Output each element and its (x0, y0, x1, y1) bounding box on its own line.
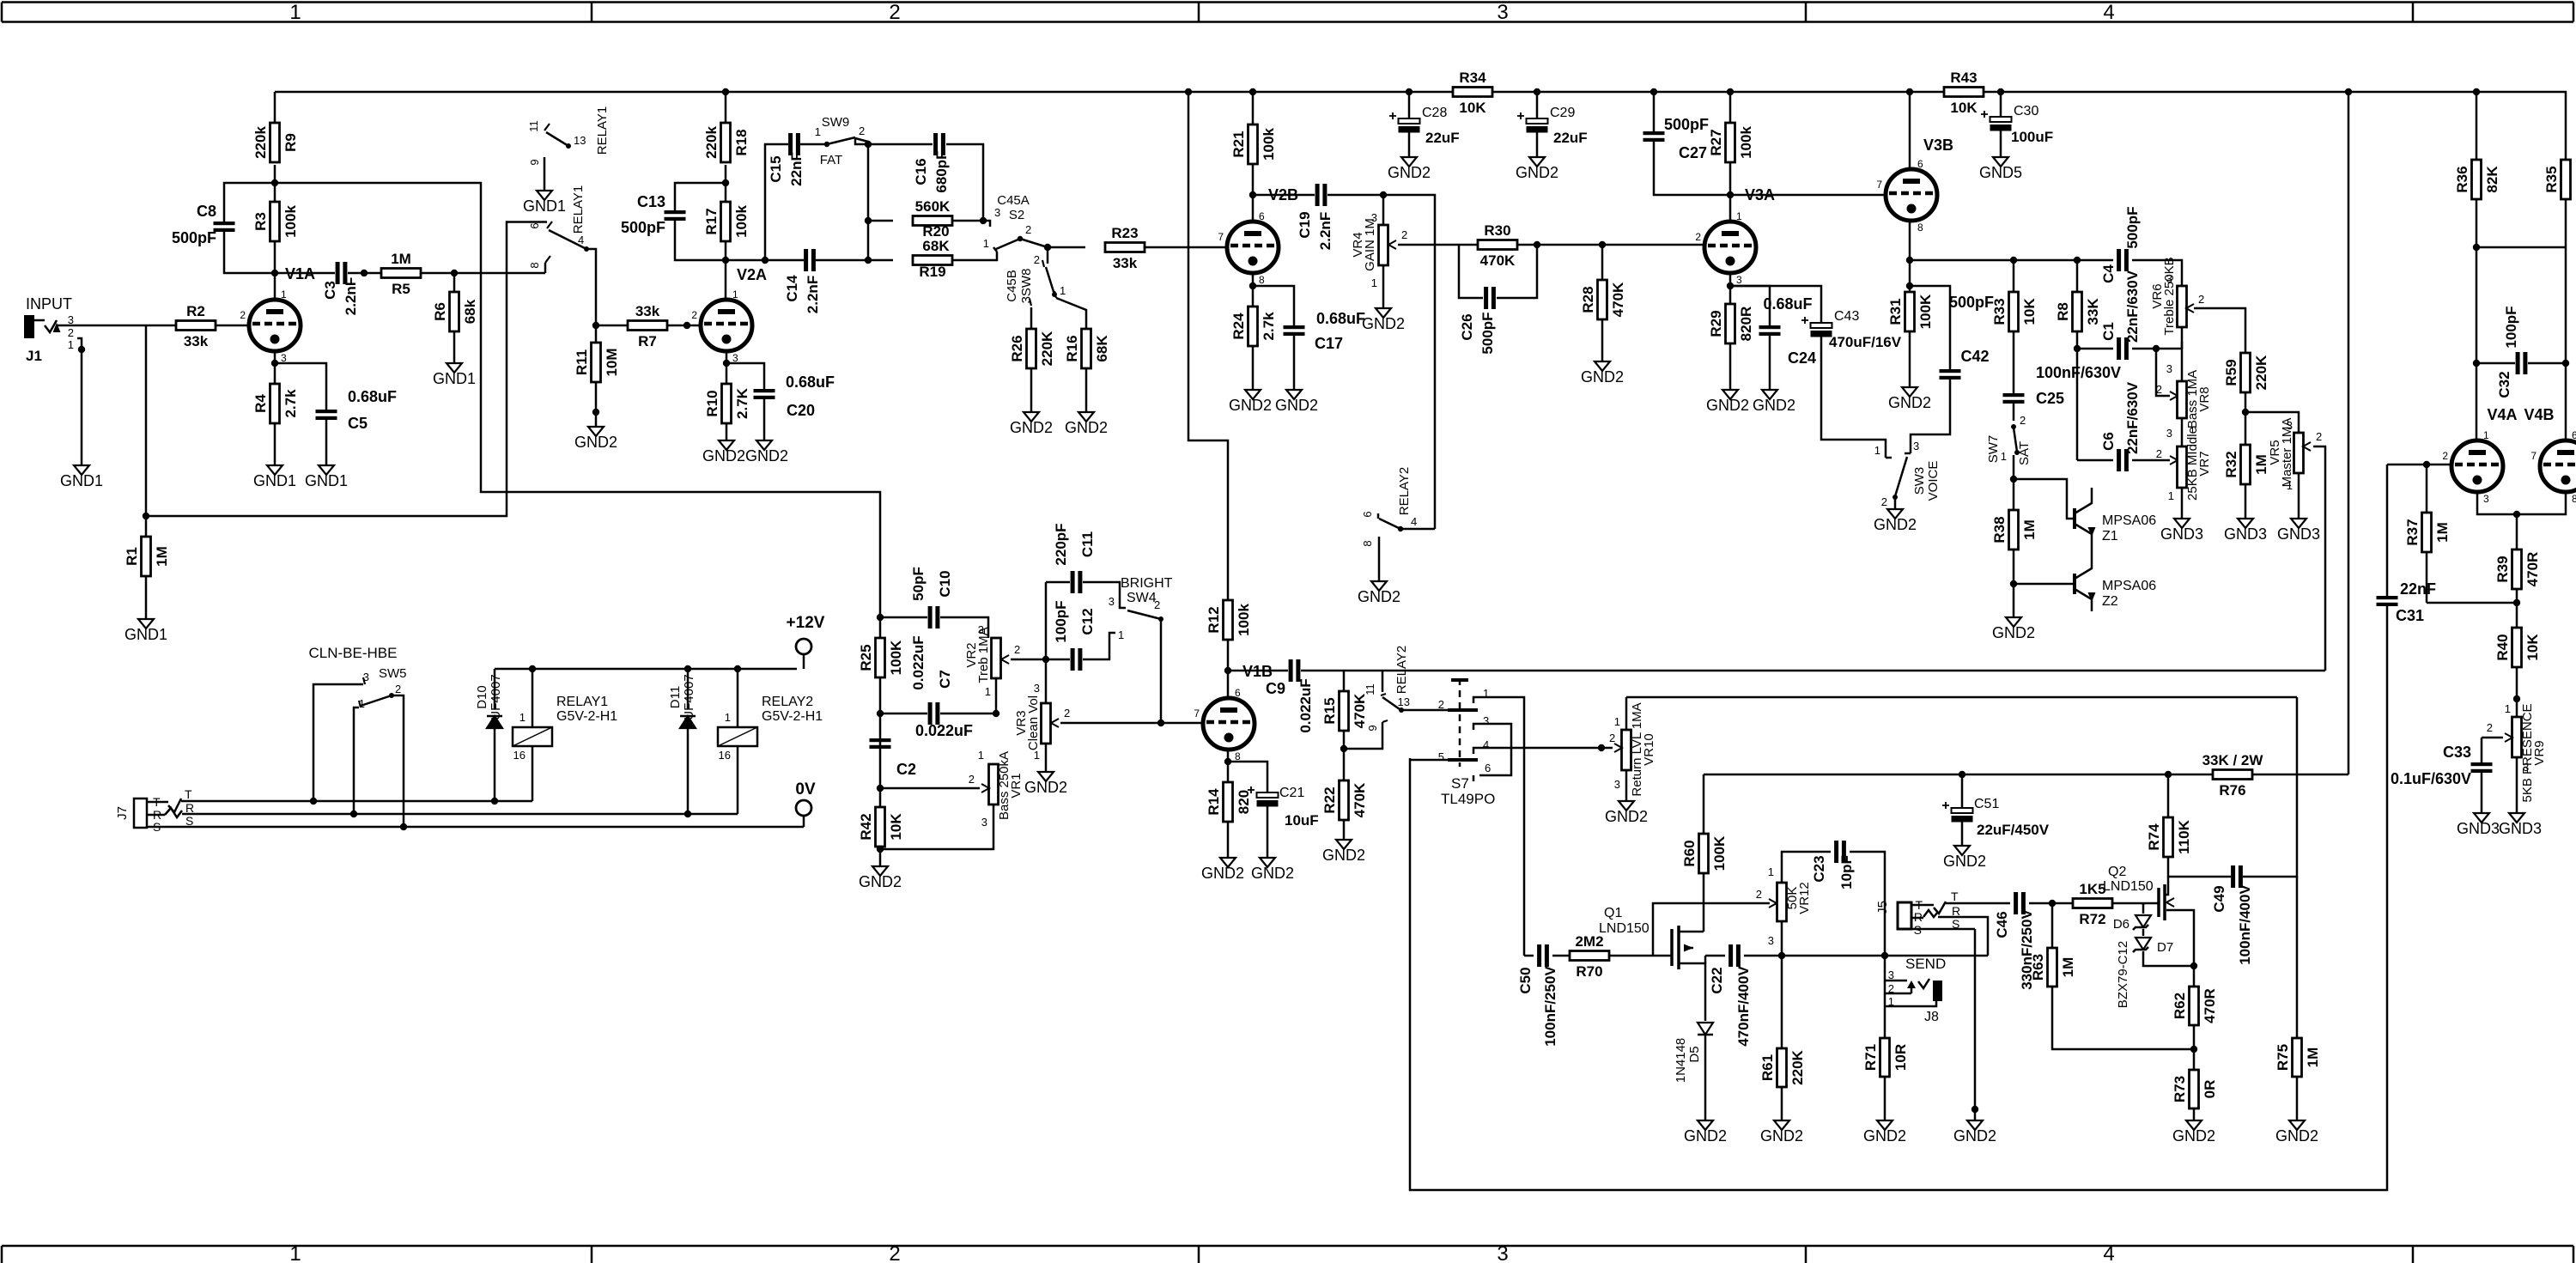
svg-text:3: 3 (1736, 274, 1742, 286)
svg-text:6: 6 (1361, 511, 1374, 517)
svg-text:3: 3 (68, 313, 74, 326)
svg-text:VR12: VR12 (1797, 882, 1812, 914)
svg-text:R74: R74 (2146, 823, 2162, 851)
svg-text:100k: 100k (283, 205, 299, 238)
svg-text:470K: 470K (1480, 252, 1516, 269)
svg-text:500pF: 500pF (1479, 312, 1496, 354)
svg-text:0V: 0V (795, 780, 816, 798)
svg-text:2: 2 (68, 326, 74, 339)
svg-text:C45B: C45B (1005, 270, 1019, 302)
svg-text:2: 2 (1881, 495, 1887, 508)
svg-text:2: 2 (2487, 721, 2493, 734)
svg-text:R36: R36 (2454, 166, 2470, 192)
svg-text:100pF: 100pF (1053, 600, 1069, 642)
svg-text:0.68uF: 0.68uF (786, 373, 835, 391)
svg-text:G5V-2-H1: G5V-2-H1 (556, 709, 617, 724)
svg-text:C15: C15 (768, 155, 784, 182)
svg-text:2: 2 (1014, 643, 1020, 656)
svg-text:6: 6 (528, 222, 541, 228)
svg-text:R38: R38 (1991, 516, 2008, 543)
svg-text:2.2nF: 2.2nF (805, 276, 821, 313)
svg-text:J7: J7 (115, 806, 130, 820)
svg-text:S7: S7 (1451, 775, 1469, 792)
svg-text:100nF/250V: 100nF/250V (1542, 966, 1558, 1047)
svg-text:220pF: 220pF (1053, 523, 1069, 565)
svg-text:8: 8 (1259, 274, 1265, 286)
svg-text:220k: 220k (703, 126, 720, 159)
svg-text:R61: R61 (1759, 1054, 1776, 1081)
svg-text:C14: C14 (784, 275, 800, 302)
svg-text:R12: R12 (1206, 606, 1222, 633)
svg-text:1: 1 (2287, 479, 2293, 492)
svg-text:470K: 470K (1352, 693, 1368, 728)
svg-text:RELAY2: RELAY2 (1394, 646, 1409, 694)
svg-text:R76: R76 (2219, 782, 2245, 798)
svg-text:R16: R16 (1064, 335, 1080, 361)
svg-text:1: 1 (1034, 749, 1040, 762)
svg-text:R31: R31 (1887, 298, 1904, 325)
svg-text:R19: R19 (919, 264, 945, 280)
svg-text:10K: 10K (888, 813, 904, 841)
svg-text:3: 3 (1109, 595, 1115, 608)
svg-text:V4B: V4B (2524, 406, 2554, 423)
svg-text:T: T (185, 787, 192, 801)
svg-text:GND2: GND2 (1706, 397, 1749, 414)
svg-text:S: S (185, 814, 193, 828)
svg-text:R17: R17 (703, 208, 720, 234)
svg-text:4: 4 (2103, 1, 2114, 24)
svg-text:C49: C49 (2211, 885, 2227, 912)
svg-text:33K / 2W: 33K / 2W (2202, 752, 2264, 768)
svg-text:1: 1 (978, 749, 984, 762)
svg-text:D10: D10 (475, 685, 489, 709)
svg-text:C45A: C45A (997, 193, 1030, 208)
svg-text:C28: C28 (1422, 106, 1447, 120)
svg-text:2.7k: 2.7k (1261, 312, 1277, 341)
svg-text:R23: R23 (1111, 225, 1138, 241)
svg-text:1M: 1M (2305, 1047, 2321, 1068)
svg-text:R14: R14 (1206, 788, 1222, 816)
svg-text:GND3: GND3 (2160, 525, 2203, 543)
svg-text:GND2: GND2 (1065, 419, 1108, 436)
svg-text:V1A: V1A (285, 265, 315, 282)
svg-text:R72: R72 (2079, 911, 2105, 927)
svg-text:1: 1 (519, 711, 526, 724)
svg-text:LND150: LND150 (1599, 921, 1649, 936)
svg-text:1M: 1M (391, 251, 411, 267)
svg-text:R6: R6 (432, 302, 448, 321)
svg-text:R43: R43 (1950, 70, 1977, 86)
svg-text:1: 1 (1736, 210, 1742, 222)
svg-text:3: 3 (1034, 682, 1040, 695)
svg-text:R26: R26 (1009, 335, 1025, 361)
svg-text:0.68uF: 0.68uF (1763, 295, 1812, 313)
svg-text:R24: R24 (1230, 313, 1247, 340)
svg-text:0.68uF: 0.68uF (348, 388, 397, 405)
svg-text:7: 7 (1194, 707, 1200, 720)
svg-text:GND3: GND3 (2457, 820, 2500, 837)
svg-text:GND2: GND2 (1010, 419, 1053, 436)
svg-text:R59: R59 (2223, 359, 2239, 386)
svg-text:3: 3 (2483, 493, 2489, 505)
svg-text:3: 3 (1913, 440, 1919, 452)
svg-text:4: 4 (1411, 515, 1417, 528)
svg-text:1: 1 (289, 1242, 301, 1263)
svg-text:68K: 68K (1094, 335, 1110, 362)
svg-text:10pF: 10pF (1838, 855, 1855, 890)
svg-text:C8: C8 (197, 203, 216, 220)
svg-text:C20: C20 (787, 402, 815, 419)
svg-text:2.2nF: 2.2nF (343, 277, 359, 315)
svg-text:500pF: 500pF (172, 229, 216, 246)
svg-text:SW7: SW7 (1986, 435, 2001, 464)
svg-text:R37: R37 (2404, 519, 2421, 545)
svg-text:10R: 10R (1893, 1044, 1909, 1071)
svg-text:82K: 82K (2484, 166, 2500, 193)
svg-text:1: 1 (983, 237, 989, 250)
svg-text:10K: 10K (1950, 100, 1978, 116)
svg-text:R70: R70 (1576, 963, 1602, 980)
svg-text:2: 2 (2316, 430, 2322, 443)
svg-text:R11: R11 (574, 349, 590, 375)
svg-text:C25: C25 (2036, 390, 2064, 407)
svg-text:2: 2 (2156, 383, 2162, 396)
svg-text:VR7: VR7 (2197, 451, 2212, 476)
svg-text:VR1: VR1 (1009, 773, 1024, 798)
svg-text:1: 1 (1118, 628, 1124, 641)
svg-text:D7: D7 (2157, 940, 2173, 955)
svg-text:C24: C24 (1788, 349, 1816, 367)
svg-text:SW3: SW3 (1912, 467, 1927, 495)
svg-text:J8: J8 (1924, 1010, 1939, 1024)
svg-text:2: 2 (1025, 223, 1031, 236)
svg-text:C26: C26 (1459, 313, 1475, 340)
svg-text:100uF: 100uF (2011, 129, 2053, 145)
svg-text:C42: C42 (1960, 348, 1989, 365)
svg-text:3: 3 (1768, 934, 1774, 947)
svg-text:2: 2 (889, 1242, 900, 1263)
svg-text:500pF: 500pF (1949, 294, 1994, 311)
svg-text:7: 7 (1876, 179, 1882, 191)
svg-text:GND2: GND2 (1760, 1127, 1803, 1145)
svg-text:1: 1 (68, 338, 74, 351)
svg-text:22uF: 22uF (1425, 130, 1460, 146)
svg-text:100k: 100k (1236, 604, 1252, 636)
svg-text:0.022uF: 0.022uF (1297, 678, 1314, 732)
svg-text:33K: 33K (2085, 298, 2101, 325)
svg-text:R60: R60 (1681, 840, 1698, 866)
svg-text:10K: 10K (2021, 298, 2038, 325)
svg-text:SEND: SEND (1905, 956, 1946, 972)
svg-text:1: 1 (1874, 444, 1880, 457)
svg-text:R71: R71 (1862, 1044, 1879, 1071)
svg-text:100K: 100K (888, 640, 904, 675)
svg-text:GND2: GND2 (1229, 397, 1272, 414)
svg-text:1: 1 (1060, 284, 1066, 297)
svg-text:100k: 100k (1738, 126, 1754, 159)
svg-text:Treble 250KB: Treble 250KB (2162, 257, 2177, 335)
svg-text:6: 6 (1917, 158, 1923, 170)
svg-text:GND2: GND2 (1581, 368, 1624, 386)
svg-text:SW4: SW4 (1127, 591, 1157, 605)
svg-text:2.7k: 2.7k (283, 389, 299, 418)
svg-text:GND2: GND2 (1605, 808, 1648, 825)
svg-text:C32: C32 (2496, 371, 2512, 398)
svg-text:R7: R7 (638, 333, 657, 349)
svg-text:R34: R34 (1459, 70, 1486, 86)
svg-text:6: 6 (1235, 687, 1241, 699)
svg-text:C4: C4 (2100, 264, 2117, 283)
svg-text:220K: 220K (2253, 355, 2269, 390)
svg-text:6: 6 (1259, 210, 1265, 222)
svg-text:2: 2 (1401, 228, 1407, 241)
svg-text:RELAY1: RELAY1 (571, 185, 586, 234)
svg-text:RELAY2: RELAY2 (762, 695, 813, 709)
svg-text:C19: C19 (1297, 211, 1313, 238)
svg-text:220k: 220k (252, 126, 269, 159)
svg-text:R22: R22 (1321, 786, 1338, 813)
svg-text:5: 5 (1438, 750, 1444, 763)
svg-text:7: 7 (1218, 231, 1224, 243)
svg-text:1: 1 (2168, 489, 2174, 502)
svg-text:13: 13 (574, 134, 586, 147)
svg-text:GND2: GND2 (1516, 164, 1558, 181)
svg-text:Z2: Z2 (2102, 594, 2118, 609)
svg-text:3: 3 (2523, 761, 2529, 774)
svg-text:1: 1 (2001, 450, 2007, 463)
svg-text:INPUT: INPUT (26, 295, 72, 313)
svg-text:820R: 820R (1738, 307, 1754, 342)
svg-text:RELAY2: RELAY2 (1397, 467, 1412, 515)
svg-text:470nF/400V: 470nF/400V (1735, 966, 1752, 1047)
svg-text:D6: D6 (2113, 917, 2129, 932)
svg-text:2: 2 (2156, 447, 2162, 460)
svg-text:GND2: GND2 (1684, 1127, 1727, 1145)
svg-text:J5: J5 (1875, 901, 1890, 914)
svg-text:GND5: GND5 (1979, 164, 2022, 181)
svg-text:820: 820 (1236, 790, 1252, 814)
svg-text:GND2: GND2 (1753, 397, 1795, 414)
svg-text:470K: 470K (1352, 782, 1368, 817)
svg-text:1: 1 (985, 685, 991, 698)
svg-text:C13: C13 (637, 193, 665, 210)
svg-text:MPSA06: MPSA06 (2102, 579, 2156, 593)
svg-text:470K: 470K (1610, 282, 1626, 317)
svg-text:V2A: V2A (737, 266, 767, 283)
svg-text:2: 2 (1609, 732, 1615, 744)
svg-text:33k: 33k (1113, 255, 1138, 271)
svg-text:500pF: 500pF (621, 219, 665, 236)
svg-text:C17: C17 (1315, 335, 1343, 352)
svg-text:C29: C29 (1550, 106, 1575, 120)
svg-text:1: 1 (732, 288, 738, 301)
svg-text:GND3: GND3 (2224, 525, 2267, 543)
svg-text:22nF: 22nF (788, 152, 805, 186)
svg-text:GND2: GND2 (2275, 1127, 2318, 1145)
svg-text:1: 1 (281, 288, 287, 301)
svg-text:1N4148: 1N4148 (1674, 1038, 1688, 1084)
svg-text:C30: C30 (2014, 104, 2038, 118)
svg-text:Z1: Z1 (2102, 529, 2118, 543)
svg-text:22nF: 22nF (2400, 580, 2436, 598)
svg-text:GND2: GND2 (1251, 865, 1294, 882)
svg-text:2: 2 (240, 309, 246, 321)
svg-text:10M: 10M (604, 348, 620, 376)
svg-text:680pF: 680pF (933, 150, 950, 192)
svg-text:GND2: GND2 (1943, 853, 1986, 870)
svg-text:0.022uF: 0.022uF (915, 722, 973, 739)
svg-text:C21: C21 (1279, 786, 1304, 800)
svg-text:1K5: 1K5 (2079, 881, 2105, 897)
svg-text:0.022uF: 0.022uF (910, 635, 927, 689)
svg-text:RELAY1: RELAY1 (556, 695, 608, 709)
svg-text:GND1: GND1 (523, 197, 566, 215)
svg-text:50pF: 50pF (910, 567, 927, 601)
svg-text:1: 1 (1614, 715, 1620, 728)
svg-text:C51: C51 (1974, 797, 1999, 811)
svg-text:Master 1MA: Master 1MA (2280, 418, 2294, 488)
svg-text:2: 2 (969, 773, 975, 786)
svg-text:GND2: GND2 (1388, 164, 1431, 181)
svg-text:22uF: 22uF (1553, 130, 1588, 146)
svg-text:470R: 470R (2524, 552, 2541, 587)
svg-text:SW5: SW5 (379, 666, 407, 681)
svg-text:10K: 10K (1459, 100, 1486, 116)
svg-text:16: 16 (513, 749, 526, 762)
svg-text:C11: C11 (1079, 531, 1096, 557)
svg-text:GND2: GND2 (1863, 1127, 1906, 1145)
svg-text:GAIN 1M: GAIN 1M (1363, 218, 1377, 271)
svg-text:R30: R30 (1484, 222, 1510, 239)
svg-text:VR9: VR9 (2532, 740, 2547, 765)
svg-text:8: 8 (1917, 222, 1923, 234)
svg-text:C33: C33 (2443, 744, 2471, 761)
svg-text:R: R (185, 801, 194, 815)
svg-text:3SW8: 3SW8 (1019, 269, 1034, 304)
svg-text:C6: C6 (2100, 432, 2117, 451)
svg-text:GND3: GND3 (2499, 820, 2542, 837)
svg-text:+12V: +12V (787, 614, 825, 632)
svg-text:6: 6 (2572, 429, 2576, 441)
svg-text:S2: S2 (1009, 208, 1024, 222)
svg-text:C16: C16 (913, 158, 929, 185)
svg-text:22nF/630V: 22nF/630V (2124, 381, 2141, 454)
svg-text:9: 9 (1366, 725, 1379, 731)
svg-text:GND2: GND2 (1953, 1127, 1996, 1145)
svg-text:R35: R35 (2543, 166, 2560, 192)
svg-text:1: 1 (2483, 429, 2489, 441)
svg-text:1: 1 (2505, 702, 2511, 715)
svg-text:C43: C43 (1834, 309, 1859, 324)
svg-text:C1: C1 (2100, 322, 2117, 341)
svg-text:3: 3 (1483, 714, 1489, 727)
svg-text:3: 3 (2166, 362, 2172, 375)
svg-text:470uF/16V: 470uF/16V (1829, 334, 1902, 350)
svg-text:1M: 1M (2434, 522, 2451, 543)
svg-text:T: T (1951, 890, 1959, 903)
svg-text:GND2: GND2 (1358, 588, 1400, 605)
svg-text:4: 4 (578, 234, 584, 246)
svg-text:V4A: V4A (2487, 406, 2517, 423)
svg-text:LND150: LND150 (2103, 879, 2154, 894)
svg-text:R27: R27 (1708, 129, 1724, 155)
svg-text:0.68uF: 0.68uF (1316, 310, 1365, 327)
svg-text:22nF/630V: 22nF/630V (2124, 270, 2141, 343)
svg-text:1M: 1M (2021, 519, 2038, 540)
svg-text:GND2: GND2 (1362, 315, 1405, 332)
svg-text:GND2: GND2 (1322, 847, 1365, 864)
svg-text:R42: R42 (858, 813, 874, 840)
svg-text:2: 2 (395, 683, 401, 695)
svg-text:BRIGHT: BRIGHT (1121, 576, 1173, 591)
svg-text:R: R (1952, 904, 1960, 918)
svg-text:C5: C5 (348, 415, 368, 432)
svg-text:100k: 100k (733, 205, 750, 238)
svg-text:SAT: SAT (2017, 441, 2032, 465)
svg-text:10K: 10K (2524, 634, 2541, 661)
svg-text:C23: C23 (1811, 855, 1827, 882)
svg-text:2: 2 (2020, 414, 2026, 427)
svg-text:R10: R10 (704, 390, 720, 416)
svg-text:R2: R2 (186, 303, 205, 319)
svg-text:VR8: VR8 (2197, 386, 2212, 411)
svg-text:D5: D5 (1687, 1046, 1702, 1062)
svg-text:GND2: GND2 (1275, 397, 1318, 414)
svg-text:VOICE: VOICE (1926, 461, 1941, 501)
svg-text:GND2: GND2 (1201, 865, 1244, 882)
svg-text:R21: R21 (1230, 131, 1247, 157)
svg-text:J1: J1 (26, 348, 42, 364)
svg-text:220K: 220K (1789, 1049, 1806, 1084)
svg-text:3: 3 (981, 816, 987, 829)
svg-text:GND2: GND2 (745, 447, 788, 465)
svg-text:8: 8 (1361, 540, 1374, 546)
svg-text:68k: 68k (462, 299, 478, 324)
svg-text:C22: C22 (1709, 967, 1725, 993)
svg-text:GND2: GND2 (702, 447, 745, 465)
svg-text:16: 16 (719, 749, 731, 762)
svg-text:0R: 0R (2202, 1080, 2218, 1099)
svg-text:C27: C27 (1679, 144, 1707, 161)
svg-text:9: 9 (528, 159, 541, 165)
svg-text:GND1: GND1 (60, 472, 103, 489)
svg-text:2: 2 (1034, 253, 1040, 266)
svg-text:Clean Vol: Clean Vol (1026, 695, 1041, 750)
svg-text:CLN-BE-HBE: CLN-BE-HBE (309, 645, 398, 661)
svg-text:GND1: GND1 (433, 370, 476, 387)
svg-text:GND2: GND2 (859, 873, 902, 890)
svg-text:100K: 100K (1711, 835, 1728, 871)
svg-text:GND2: GND2 (574, 434, 617, 451)
svg-text:100nF/630V: 100nF/630V (2036, 364, 2121, 381)
svg-text:R5: R5 (392, 281, 410, 297)
svg-text:V3B: V3B (1923, 137, 1953, 154)
svg-text:R40: R40 (2494, 634, 2511, 660)
svg-text:33k: 33k (635, 303, 660, 319)
svg-text:500pF: 500pF (1664, 116, 1709, 133)
svg-text:100nF/400V: 100nF/400V (2237, 884, 2253, 965)
svg-text:C3: C3 (322, 281, 338, 300)
svg-text:2: 2 (889, 1, 900, 24)
svg-text:3: 3 (2166, 427, 2172, 440)
svg-text:1M: 1M (2060, 957, 2076, 978)
svg-text:S: S (1952, 917, 1959, 931)
svg-text:3: 3 (1614, 778, 1620, 791)
svg-text:UF4007: UF4007 (489, 674, 503, 720)
svg-text:2.2nF: 2.2nF (1317, 212, 1334, 250)
svg-text:GND2: GND2 (1888, 394, 1931, 411)
svg-text:GND1: GND1 (305, 472, 348, 489)
